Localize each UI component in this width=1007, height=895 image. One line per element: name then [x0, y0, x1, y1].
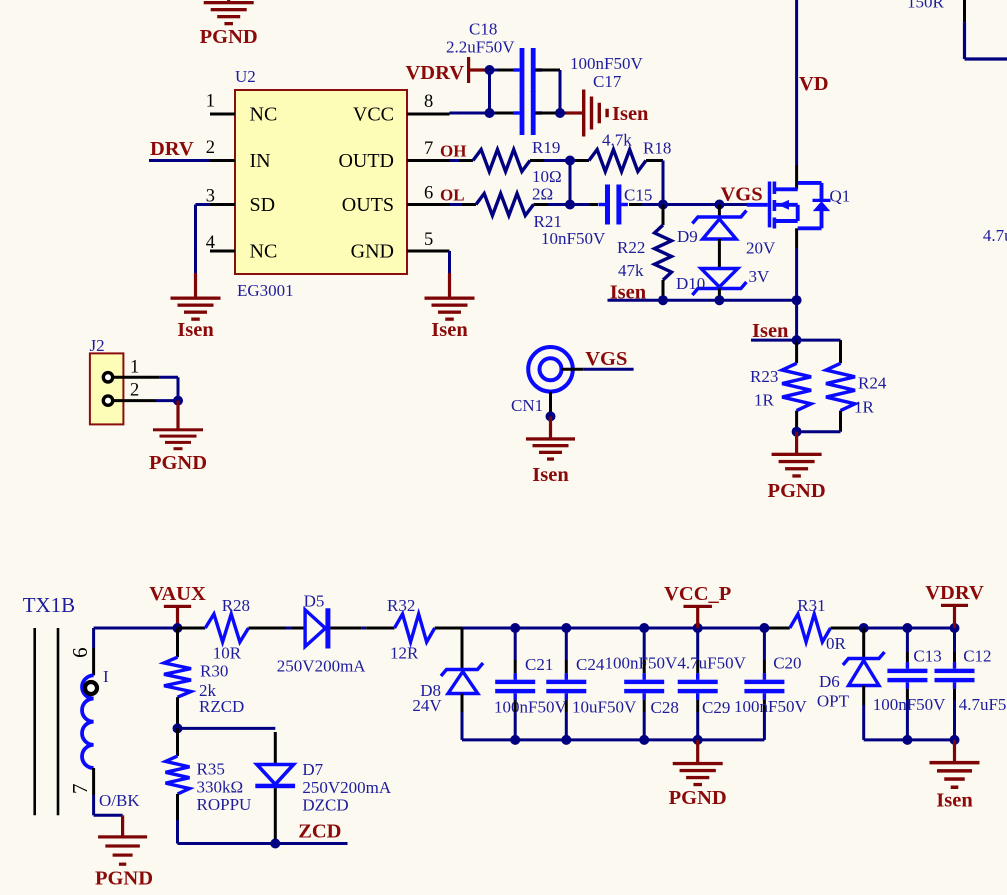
svg-text:100nF50V: 100nF50V	[734, 697, 807, 716]
svg-text:PGND: PGND	[149, 452, 207, 474]
svg-text:10Ω: 10Ω	[532, 167, 562, 186]
svg-text:C18: C18	[469, 20, 497, 39]
svg-text:6: 6	[424, 184, 433, 204]
svg-text:CN1: CN1	[511, 396, 543, 415]
svg-text:4.7uF50V: 4.7uF50V	[677, 654, 746, 673]
svg-text:R32: R32	[387, 596, 415, 615]
svg-text:OUTD: OUTD	[338, 150, 394, 172]
svg-text:R18: R18	[643, 139, 671, 158]
svg-text:Isen: Isen	[610, 282, 647, 304]
svg-text:DZCD: DZCD	[302, 796, 348, 815]
svg-text:NC: NC	[250, 241, 278, 263]
svg-text:1R: 1R	[854, 398, 875, 417]
svg-text:7: 7	[424, 139, 433, 159]
svg-text:10nF50V: 10nF50V	[541, 229, 606, 248]
svg-text:R30: R30	[200, 662, 228, 681]
svg-text:100nF50V: 100nF50V	[570, 54, 643, 73]
svg-text:OUTS: OUTS	[342, 194, 394, 216]
svg-text:1R: 1R	[754, 391, 775, 410]
svg-text:330kΩ: 330kΩ	[197, 778, 244, 797]
svg-text:C12: C12	[963, 647, 991, 666]
svg-text:C21: C21	[525, 655, 553, 674]
svg-text:VCC: VCC	[353, 104, 394, 126]
svg-text:R23: R23	[750, 367, 778, 386]
svg-text:VGS: VGS	[721, 183, 763, 205]
svg-text:NC: NC	[250, 104, 278, 126]
svg-text:Isen: Isen	[752, 320, 789, 342]
svg-text:Isen: Isen	[612, 103, 649, 125]
svg-text:4.7uF50V: 4.7uF50V	[959, 695, 1007, 714]
svg-text:4.7k: 4.7k	[602, 131, 632, 150]
svg-text:R31: R31	[797, 596, 825, 615]
svg-text:VGS: VGS	[585, 348, 627, 370]
svg-text:2: 2	[130, 381, 139, 401]
svg-text:150R: 150R	[907, 0, 945, 12]
svg-text:VD: VD	[799, 73, 829, 95]
svg-text:Isen: Isen	[431, 319, 468, 341]
svg-text:PGND: PGND	[200, 26, 258, 48]
svg-text:VDRV: VDRV	[406, 62, 465, 84]
svg-text:2Ω: 2Ω	[532, 185, 553, 204]
svg-text:24V: 24V	[412, 696, 442, 715]
svg-text:2.2uF50V: 2.2uF50V	[446, 38, 515, 57]
svg-text:VAUX: VAUX	[149, 583, 206, 605]
svg-text:IN: IN	[250, 150, 271, 172]
svg-text:OPT: OPT	[817, 692, 850, 711]
svg-text:R28: R28	[222, 596, 250, 615]
svg-text:D5: D5	[304, 592, 325, 611]
svg-text:C15: C15	[624, 186, 652, 205]
svg-text:ROPPU: ROPPU	[197, 795, 252, 814]
svg-text:100nF50V: 100nF50V	[873, 695, 946, 714]
svg-text:0R: 0R	[826, 634, 847, 653]
svg-text:10uF50V: 10uF50V	[572, 698, 637, 717]
svg-text:Isen: Isen	[532, 464, 569, 486]
svg-text:R24: R24	[858, 374, 887, 393]
svg-text:PGND: PGND	[669, 787, 727, 809]
svg-text:GND: GND	[351, 241, 394, 263]
svg-text:VDRV: VDRV	[925, 582, 984, 604]
svg-text:D6: D6	[819, 672, 840, 691]
svg-text:D7: D7	[302, 760, 323, 779]
svg-text:DRV: DRV	[150, 138, 194, 160]
svg-text:I: I	[103, 667, 109, 686]
svg-text:7: 7	[68, 784, 92, 795]
svg-text:8: 8	[424, 92, 433, 112]
svg-text:OL: OL	[440, 186, 465, 205]
svg-text:D9: D9	[677, 227, 698, 246]
svg-text:ZCD: ZCD	[298, 821, 341, 843]
svg-text:C20: C20	[773, 654, 801, 673]
svg-text:3V: 3V	[749, 267, 771, 286]
svg-text:4: 4	[206, 233, 215, 253]
svg-text:R35: R35	[197, 760, 225, 779]
svg-text:Isen: Isen	[177, 319, 214, 341]
svg-text:R22: R22	[617, 238, 645, 257]
svg-text:10R: 10R	[213, 644, 242, 663]
svg-text:2: 2	[206, 138, 215, 158]
svg-text:12R: 12R	[390, 644, 419, 663]
svg-text:C17: C17	[593, 72, 622, 91]
svg-text:O/BK: O/BK	[99, 791, 140, 810]
svg-text:250V200mA: 250V200mA	[302, 778, 392, 797]
svg-text:20V: 20V	[746, 239, 776, 258]
svg-text:Isen: Isen	[936, 790, 973, 812]
svg-text:SD: SD	[250, 194, 276, 216]
svg-text:OH: OH	[440, 142, 466, 161]
svg-text:TX1B: TX1B	[23, 593, 75, 617]
svg-text:Q1: Q1	[830, 187, 851, 206]
svg-text:C13: C13	[913, 647, 941, 666]
svg-text:1: 1	[130, 358, 139, 378]
svg-text:R19: R19	[532, 138, 560, 157]
svg-text:4.7uF: 4.7uF	[983, 226, 1007, 245]
svg-text:D10: D10	[676, 274, 705, 293]
svg-text:C28: C28	[651, 698, 679, 717]
svg-text:EG3001: EG3001	[237, 281, 294, 300]
svg-text:5: 5	[424, 230, 433, 250]
svg-text:PGND: PGND	[95, 868, 153, 890]
svg-text:47k: 47k	[618, 261, 644, 280]
svg-text:C24: C24	[576, 655, 605, 674]
svg-text:C29: C29	[702, 698, 730, 717]
svg-text:U2: U2	[235, 67, 256, 86]
svg-text:6: 6	[68, 647, 92, 658]
svg-text:VCC_P: VCC_P	[664, 583, 731, 605]
svg-text:RZCD: RZCD	[199, 697, 244, 716]
svg-text:J2: J2	[90, 336, 105, 355]
svg-text:100nF50V: 100nF50V	[494, 698, 567, 717]
svg-text:250V200mA: 250V200mA	[277, 657, 367, 676]
svg-text:PGND: PGND	[768, 480, 826, 502]
svg-text:1: 1	[206, 92, 215, 112]
svg-text:100nF50V: 100nF50V	[605, 654, 678, 673]
